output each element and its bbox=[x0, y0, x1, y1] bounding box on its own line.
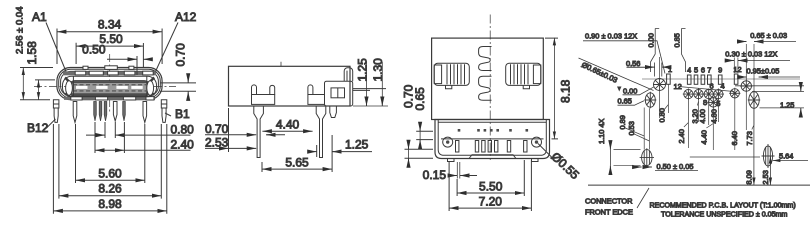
shell leg 2 bar bbox=[308, 95, 325, 105]
right foot bbox=[532, 159, 539, 162]
rear slot band line bbox=[441, 138, 544, 140]
bottom notch bbox=[469, 155, 516, 159]
dim 5.50 bottom bbox=[457, 160, 524, 196]
corner wedge TL bbox=[65, 78, 72, 85]
dim 5.65 bbox=[262, 135, 332, 172]
svg-text:4.40: 4.40 bbox=[700, 130, 709, 144]
svg-text:0.80: 0.80 bbox=[171, 123, 195, 137]
centerline horizontal bbox=[34, 85, 176, 87]
right board lock leg B1 bbox=[161, 100, 167, 123]
dim 4.40 bbox=[262, 130, 312, 132]
dim 8.98 bbox=[53, 124, 166, 214]
svg-text:0.89: 0.89 bbox=[618, 115, 627, 129]
svg-text:2.53: 2.53 bbox=[205, 135, 229, 149]
dim 8.34 bbox=[57, 29, 162, 65]
hole pad 3 bbox=[693, 89, 704, 100]
face band bottom bbox=[64, 97, 155, 100]
svg-text:0.90 ± 0.03 12X: 0.90 ± 0.03 12X bbox=[585, 31, 637, 40]
svg-text:4.80: 4.80 bbox=[710, 109, 719, 123]
corner wedge TR bbox=[147, 78, 154, 85]
through-hole pin 1 bbox=[254, 106, 264, 158]
hole pad 4 bbox=[713, 89, 724, 100]
face dimples top bbox=[75, 71, 86, 75]
right end oval bbox=[147, 81, 154, 95]
svg-text:7.20: 7.20 bbox=[479, 195, 503, 209]
connector front edge line bbox=[588, 184, 810, 186]
svg-text:0.85: 0.85 bbox=[673, 33, 682, 47]
dim 5.60 bbox=[76, 124, 145, 183]
EMI spring cutout upper bbox=[479, 47, 492, 71]
svg-text:4: 4 bbox=[721, 82, 725, 91]
dim 0.80 pins bbox=[105, 122, 115, 138]
dim 2.53 bbox=[228, 108, 230, 152]
tongue top band bbox=[71, 81, 149, 83]
slot pad lower left bbox=[640, 148, 654, 167]
corner wedge BR bbox=[148, 89, 154, 95]
svg-text:0.15: 0.15 bbox=[423, 168, 447, 182]
wide pin latch bbox=[113, 102, 117, 122]
slot pad upper right bbox=[748, 91, 760, 110]
top center tick bbox=[280, 62, 282, 67]
bracket window divider bbox=[337, 88, 339, 98]
SMT pad 5 bbox=[694, 75, 698, 84]
right barrel bbox=[506, 63, 541, 85]
svg-text:8.34: 8.34 bbox=[98, 18, 122, 32]
oval row line bbox=[690, 156, 760, 158]
svg-text:5: 5 bbox=[694, 66, 698, 75]
shell outer bbox=[57, 68, 162, 100]
vert label 0.00 left bbox=[651, 29, 660, 73]
hole pad 11 bbox=[740, 80, 752, 92]
svg-text:2.56 ± 0.04: 2.56 ± 0.04 bbox=[15, 7, 26, 54]
shell face line bbox=[61, 71, 159, 96]
svg-text:0.50: 0.50 bbox=[82, 43, 106, 57]
svg-text:2.53: 2.53 bbox=[761, 170, 770, 184]
svg-text:0.00: 0.00 bbox=[646, 33, 655, 47]
dim 0.70 pin width bbox=[205, 134, 256, 136]
svg-text:0.30 ± 0.03 12X: 0.30 ± 0.03 12X bbox=[725, 50, 777, 59]
pad row construction line bbox=[642, 78, 800, 80]
hole pad 6 bbox=[703, 89, 714, 100]
right barrel cap bbox=[533, 65, 540, 84]
svg-text:RECOMMENDED P.C.B. LAYOUT (T:: RECOMMENDED P.C.B. LAYOUT (T:1.00mm) bbox=[650, 202, 796, 210]
shell leg 1 posts bbox=[252, 85, 257, 95]
tongue bbox=[69, 81, 150, 96]
dim 5.50 bbox=[76, 43, 143, 67]
SMT pad 12 bbox=[734, 74, 738, 84]
dim 0.70 right bbox=[160, 83, 196, 91]
dim 8.26 bbox=[59, 124, 161, 199]
left foot bbox=[448, 159, 455, 162]
datum 0.00 bbox=[617, 87, 622, 92]
svg-text:8.98: 8.98 bbox=[98, 197, 122, 211]
vert label 0.85 bbox=[682, 29, 686, 73]
svg-text:1.30: 1.30 bbox=[371, 58, 385, 82]
dim 0.65 left bbox=[416, 131, 433, 139]
dim 5.64 bbox=[773, 160, 808, 162]
center line bbox=[489, 15, 491, 161]
bracket solder tab bbox=[330, 106, 337, 118]
left end oval bbox=[66, 81, 73, 95]
left board lock leg B12 bbox=[53, 100, 59, 123]
wide pin right bbox=[143, 102, 147, 123]
SMT pad 9 bbox=[718, 75, 722, 84]
tongue white contacts bbox=[76, 86, 143, 89]
dim 0.50 bbox=[107, 56, 137, 75]
bracket inner window bbox=[331, 88, 345, 98]
svg-text:Ø0.55: Ø0.55 bbox=[548, 149, 582, 182]
dim 2.53 bbox=[769, 156, 771, 185]
svg-text:5.50: 5.50 bbox=[479, 180, 503, 194]
EMI spring cutout lower bbox=[479, 76, 492, 100]
tongue dashed line upper bbox=[73, 84, 146, 86]
face band top bbox=[63, 71, 156, 75]
left mounting hole bbox=[443, 137, 453, 147]
svg-text:2.40: 2.40 bbox=[171, 138, 195, 152]
svg-text:1.25: 1.25 bbox=[355, 58, 369, 82]
hole pad 8 low bbox=[708, 97, 719, 108]
svg-text:8.09: 8.09 bbox=[745, 170, 754, 184]
dim 1.25 bottom bbox=[310, 151, 317, 153]
svg-text:7: 7 bbox=[707, 66, 711, 75]
right mounting hole bbox=[532, 137, 542, 147]
svg-text:0.65: 0.65 bbox=[618, 97, 632, 106]
body outline bbox=[229, 66, 351, 106]
svg-text:12: 12 bbox=[674, 82, 682, 91]
svg-text:0.70: 0.70 bbox=[205, 122, 229, 136]
left barrel foot bbox=[446, 85, 452, 88]
svg-text:A1: A1 bbox=[32, 10, 47, 24]
left barrel cap bbox=[434, 65, 441, 84]
svg-text:6: 6 bbox=[710, 82, 714, 91]
shell second outline bbox=[59, 69, 161, 98]
rear contact dots row bbox=[458, 129, 528, 132]
label leaders bbox=[625, 102, 754, 142]
svg-text:5.60: 5.60 bbox=[98, 166, 122, 180]
slot pad lower right bbox=[762, 144, 775, 168]
svg-text:0.56: 0.56 bbox=[626, 59, 640, 68]
svg-text:0.65: 0.65 bbox=[413, 87, 427, 111]
hole pad 10 bbox=[729, 88, 740, 99]
rear slots bbox=[456, 141, 459, 153]
svg-text:7.73: 7.73 bbox=[745, 131, 754, 145]
top latch tabs bbox=[83, 66, 88, 69]
bracket hook inner line bbox=[346, 71, 348, 82]
right barrel ridges bbox=[511, 64, 529, 84]
svg-text:5.65: 5.65 bbox=[285, 155, 309, 169]
svg-text:0.50 ± 0.05: 0.50 ± 0.05 bbox=[657, 162, 694, 171]
dim 0.50±0.05 bbox=[635, 166, 642, 168]
svg-text:1.10 4X: 1.10 4X bbox=[597, 118, 606, 144]
SMT pad 1 bbox=[667, 74, 671, 84]
seating plane line bbox=[353, 105, 388, 107]
svg-text:0.00: 0.00 bbox=[623, 87, 637, 96]
svg-text:TOLERANCE UNSPECIFIED ± 0.05mm: TOLERANCE UNSPECIFIED ± 0.05mm bbox=[661, 211, 787, 218]
circle row line bbox=[735, 85, 804, 87]
dim 8.18 bbox=[545, 38, 558, 139]
SMT pad 4 bbox=[687, 75, 691, 84]
dim 2.40 pins bbox=[95, 122, 124, 153]
svg-text:6.40: 6.40 bbox=[730, 131, 739, 145]
hole pad A12 big bbox=[653, 78, 666, 91]
main body outline bbox=[432, 38, 544, 119]
dim 1.25 height bbox=[353, 89, 370, 91]
svg-text:0.70: 0.70 bbox=[174, 43, 188, 67]
dim 1.30 height bbox=[353, 88, 386, 90]
svg-text:4.40: 4.40 bbox=[276, 117, 300, 131]
corner wedge BL bbox=[65, 89, 71, 95]
svg-text:1: 1 bbox=[668, 65, 672, 74]
dim 8.09 bbox=[753, 100, 755, 185]
svg-text:4.00: 4.00 bbox=[698, 109, 707, 123]
dim 1.58 bbox=[35, 79, 55, 81]
bracket hook bbox=[344, 68, 353, 81]
through-hole pin 2 bbox=[316, 106, 326, 158]
tongue dashed line lower bbox=[73, 90, 146, 92]
svg-text:8.26: 8.26 bbox=[98, 182, 122, 196]
svg-text:5.64: 5.64 bbox=[779, 151, 793, 160]
dim 0.70 left bbox=[405, 149, 434, 158]
svg-text:CONNECTOR: CONNECTOR bbox=[585, 197, 633, 206]
svg-text:8.18: 8.18 bbox=[559, 79, 573, 103]
svg-text:0.53: 0.53 bbox=[627, 121, 636, 135]
shell leg 2 post bbox=[308, 85, 313, 95]
svg-text:B12: B12 bbox=[27, 121, 49, 135]
label 12 leader bbox=[679, 87, 735, 92]
svg-text:2.40: 2.40 bbox=[677, 129, 686, 143]
svg-text:Ø0.65±0.03: Ø0.65±0.03 bbox=[580, 60, 619, 84]
dim 0.15 bbox=[457, 162, 460, 179]
SMT pad 6 bbox=[701, 75, 705, 84]
slot pad upper left bbox=[644, 92, 656, 108]
svg-text:1.25: 1.25 bbox=[345, 138, 369, 152]
right barrel foot bbox=[523, 85, 529, 88]
cavity bbox=[63, 76, 157, 97]
extension verticals bbox=[644, 44, 754, 150]
svg-text:0.65 ± 0.03: 0.65 ± 0.03 bbox=[750, 31, 787, 40]
svg-text:1.25: 1.25 bbox=[780, 101, 794, 110]
rear inner band line bbox=[438, 121, 546, 123]
dim 2.56±0.04 bbox=[20, 68, 53, 100]
solder bracket box bbox=[325, 81, 353, 106]
leader dia 0.55 bbox=[538, 144, 554, 160]
centerline vertical bbox=[109, 54, 111, 112]
rear flange outline bbox=[435, 120, 550, 159]
tongue end wall right bbox=[146, 77, 148, 97]
dim 7.20 bottom bbox=[449, 160, 531, 211]
hole pad 2 bbox=[683, 89, 694, 100]
svg-text:0.95±0.05: 0.95±0.05 bbox=[747, 67, 780, 76]
svg-text:0.80: 0.80 bbox=[658, 108, 667, 122]
shell leg 1 bar bbox=[252, 95, 275, 105]
svg-text:9: 9 bbox=[718, 66, 722, 75]
left barrel ridges bbox=[447, 64, 465, 84]
svg-text:1.58: 1.58 bbox=[25, 41, 39, 65]
svg-text:FRONT EDCE: FRONT EDCE bbox=[585, 208, 633, 217]
tongue end wall left bbox=[72, 77, 74, 97]
svg-text:B1: B1 bbox=[175, 107, 190, 121]
rear flange inner line bbox=[438, 120, 546, 156]
face dimples bottom bbox=[71, 97, 82, 100]
thin contact pins bbox=[94, 102, 126, 121]
left barrel bbox=[434, 63, 469, 85]
svg-text:4: 4 bbox=[687, 66, 691, 75]
svg-text:6: 6 bbox=[701, 66, 705, 75]
wide pin left bbox=[73, 102, 77, 123]
dim 1.25 right bbox=[752, 92, 804, 108]
SMT pad 7 bbox=[708, 75, 712, 84]
tongue bottom band bbox=[71, 93, 149, 95]
svg-text:A12: A12 bbox=[175, 10, 197, 24]
